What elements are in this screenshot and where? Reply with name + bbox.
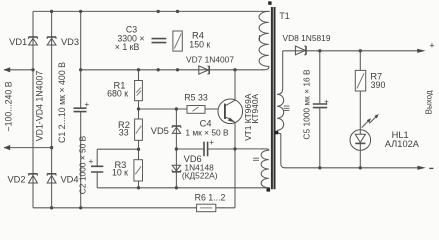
svg-text:Выход: Выход xyxy=(425,90,434,114)
svg-text:1 мк × 50 В: 1 мк × 50 В xyxy=(185,128,229,138)
svg-text:× 1 кВ: × 1 кВ xyxy=(115,42,140,52)
svg-text:R5 33: R5 33 xyxy=(184,92,208,102)
svg-text:~100...240 В: ~100...240 В xyxy=(4,81,14,131)
svg-text:+: + xyxy=(324,98,329,107)
svg-text:АЛ102А: АЛ102А xyxy=(385,139,420,149)
svg-text:33: 33 xyxy=(119,128,129,138)
svg-text:10 к: 10 к xyxy=(112,168,128,178)
svg-text:VD4: VD4 xyxy=(60,175,78,185)
svg-text:C1 2...10 мк × 400 В: C1 2...10 мк × 400 В xyxy=(57,62,67,143)
svg-text:VD7 1N4007: VD7 1N4007 xyxy=(186,55,234,65)
svg-text:VD8 1N5819: VD8 1N5819 xyxy=(283,33,331,43)
svg-text:VD5: VD5 xyxy=(151,126,169,136)
svg-text:VD1-VD4 1N4007: VD1-VD4 1N4007 xyxy=(35,71,45,142)
svg-text:C5 1000 мк × 16 В: C5 1000 мк × 16 В xyxy=(302,69,312,140)
svg-text:150 к: 150 к xyxy=(189,40,210,50)
svg-text:680 к: 680 к xyxy=(107,89,128,99)
svg-text:I: I xyxy=(258,34,260,43)
svg-text:КТ940А: КТ940А xyxy=(250,94,260,124)
svg-text:+: + xyxy=(89,157,94,166)
svg-text:+: + xyxy=(209,138,214,147)
svg-text:T1: T1 xyxy=(279,11,289,21)
svg-text:R6 1...2: R6 1...2 xyxy=(195,192,226,202)
svg-text:VD1: VD1 xyxy=(9,37,27,47)
svg-text:390: 390 xyxy=(371,80,386,90)
svg-text:VD2: VD2 xyxy=(7,175,25,185)
svg-text:(КД522А): (КД522А) xyxy=(182,171,218,181)
svg-text:II: II xyxy=(252,157,261,161)
svg-text:C2 1000 × 50 В: C2 1000 × 50 В xyxy=(78,135,88,194)
svg-text:+: + xyxy=(429,41,434,51)
svg-text:III: III xyxy=(282,105,291,112)
svg-text:+: + xyxy=(84,100,89,109)
svg-text:VD3: VD3 xyxy=(61,37,79,47)
